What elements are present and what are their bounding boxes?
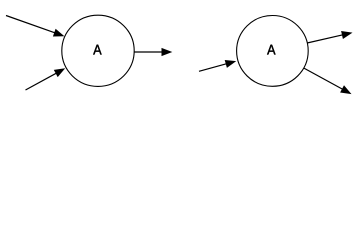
wire: input arrow into right process A <box>199 60 236 71</box>
wire: output arrow 2 from right process A <box>304 68 352 94</box>
label A (right) <box>267 45 275 55</box>
wire: input arrow 2 into left process A <box>26 68 66 90</box>
wire: output arrow from left process A <box>134 48 172 56</box>
wire: output arrow 1 from right process A <box>307 31 352 43</box>
label A (left) <box>93 45 101 55</box>
node A (right process circle) <box>237 16 309 87</box>
wire: input arrow 1 into left process A <box>6 16 64 37</box>
node A (left process circle) <box>62 15 134 86</box>
